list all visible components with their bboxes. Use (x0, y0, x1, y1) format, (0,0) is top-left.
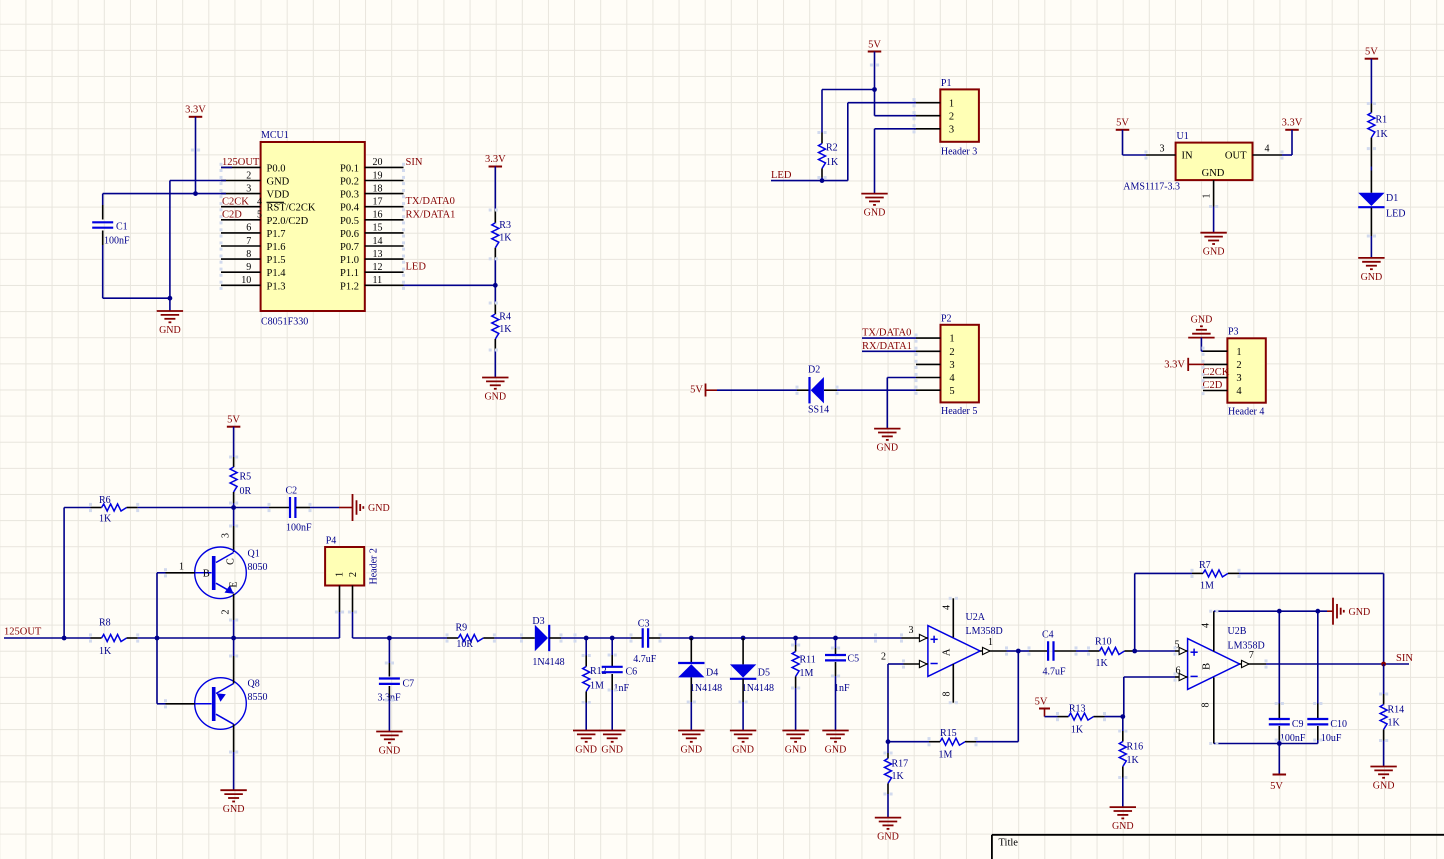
svg-text:1M: 1M (800, 668, 814, 679)
svg-text:5: 5 (949, 386, 954, 397)
svg-text:B: B (203, 569, 210, 580)
svg-text:E: E (229, 581, 240, 587)
svg-text:1K: 1K (826, 157, 839, 168)
svg-text:RX/DATA1: RX/DATA1 (862, 341, 912, 352)
svg-text:5V: 5V (1365, 47, 1378, 58)
svg-text:12: 12 (373, 262, 383, 273)
svg-text:C8051F330: C8051F330 (261, 317, 308, 328)
svg-text:C10: C10 (1330, 719, 1347, 730)
svg-text:R13: R13 (1069, 704, 1086, 715)
svg-text:1N4148: 1N4148 (690, 683, 722, 694)
svg-text:4: 4 (1201, 623, 1212, 628)
svg-text:P0.6: P0.6 (340, 229, 359, 240)
svg-text:8: 8 (942, 692, 953, 697)
svg-text:SIN: SIN (1396, 653, 1413, 664)
svg-text:1K: 1K (1127, 755, 1140, 766)
svg-text:2: 2 (1236, 360, 1241, 371)
svg-text:P1.0: P1.0 (340, 255, 359, 266)
svg-text:2: 2 (246, 170, 251, 181)
svg-text:R16: R16 (1127, 742, 1144, 753)
svg-text:R1: R1 (1376, 115, 1388, 126)
svg-text:1K: 1K (892, 771, 905, 782)
svg-text:1: 1 (988, 637, 993, 648)
svg-text:IN: IN (1182, 151, 1193, 162)
svg-text:4: 4 (257, 197, 262, 208)
svg-text:Header 4: Header 4 (1228, 407, 1264, 418)
svg-text:1: 1 (949, 334, 954, 345)
svg-text:P1.5: P1.5 (267, 255, 286, 266)
svg-text:1K: 1K (499, 233, 512, 244)
svg-text:1N4148: 1N4148 (532, 657, 564, 668)
svg-text:125OUT: 125OUT (222, 157, 260, 168)
svg-text:5V: 5V (868, 40, 881, 51)
svg-text:1K: 1K (99, 514, 112, 525)
svg-text:100nF: 100nF (1280, 733, 1306, 744)
svg-text:GND: GND (1349, 607, 1371, 618)
svg-text:GND: GND (1373, 781, 1395, 792)
svg-text:U1: U1 (1177, 131, 1189, 142)
svg-text:LM358D: LM358D (1228, 641, 1265, 652)
svg-text:100nF: 100nF (286, 523, 312, 534)
svg-text:0R: 0R (240, 486, 252, 497)
svg-text:3: 3 (949, 360, 954, 371)
svg-text:B: B (1202, 663, 1213, 670)
svg-text:GND: GND (864, 208, 886, 219)
svg-text:R4: R4 (499, 312, 511, 323)
svg-text:GND: GND (368, 503, 390, 514)
svg-text:R15: R15 (940, 728, 957, 739)
svg-text:2: 2 (221, 610, 232, 615)
svg-text:8: 8 (1201, 703, 1212, 708)
svg-text:D2: D2 (808, 365, 820, 376)
svg-text:GND: GND (825, 745, 847, 756)
svg-text:4: 4 (1265, 144, 1270, 155)
svg-text:R7: R7 (1199, 560, 1211, 571)
svg-text:125OUT: 125OUT (4, 627, 42, 638)
svg-text:R6: R6 (99, 495, 111, 506)
svg-text:GND: GND (223, 804, 245, 815)
svg-text:1: 1 (949, 98, 954, 109)
svg-text:3: 3 (909, 625, 914, 636)
svg-text:1nF: 1nF (834, 683, 850, 694)
svg-text:D5: D5 (758, 668, 770, 679)
svg-text:GND: GND (785, 745, 807, 756)
svg-text:Q1: Q1 (248, 549, 260, 560)
svg-text:P0.5: P0.5 (340, 216, 359, 227)
svg-text:1N4148: 1N4148 (742, 683, 774, 694)
svg-text:Header 5: Header 5 (941, 406, 977, 417)
svg-text:D3: D3 (532, 616, 544, 627)
svg-text:P2.0/C2D: P2.0/C2D (267, 216, 309, 227)
svg-text:1: 1 (1202, 194, 1213, 199)
svg-text:Title: Title (999, 838, 1019, 849)
svg-text:4.7uF: 4.7uF (1043, 667, 1067, 678)
svg-text:P2: P2 (941, 314, 952, 325)
svg-text:15: 15 (373, 223, 383, 234)
svg-text:A: A (942, 648, 953, 656)
svg-text:R3: R3 (499, 220, 511, 231)
svg-text:3.3nF: 3.3nF (378, 693, 402, 704)
svg-text:R17: R17 (892, 759, 909, 770)
svg-text:5V: 5V (1116, 118, 1129, 129)
svg-text:RX/DATA1: RX/DATA1 (406, 209, 456, 220)
svg-text:P1.7: P1.7 (267, 229, 286, 240)
svg-text:SIN: SIN (406, 157, 423, 168)
svg-text:C5: C5 (848, 654, 860, 665)
svg-text:C4: C4 (1042, 630, 1054, 641)
svg-text:8050: 8050 (248, 562, 268, 573)
svg-text:3.3V: 3.3V (1282, 118, 1303, 129)
svg-text:P3: P3 (1228, 327, 1239, 338)
svg-text:7: 7 (1249, 650, 1254, 661)
svg-text:1K: 1K (1071, 725, 1084, 736)
svg-text:TX/DATA0: TX/DATA0 (406, 196, 455, 207)
svg-text:3: 3 (221, 533, 232, 538)
svg-text:17: 17 (373, 197, 383, 208)
svg-text:R2: R2 (826, 143, 838, 154)
svg-text:6: 6 (246, 223, 251, 234)
svg-text:C: C (226, 558, 237, 565)
svg-text:1K: 1K (1376, 129, 1389, 140)
svg-text:SS14: SS14 (808, 405, 829, 416)
svg-text:U2A: U2A (966, 612, 986, 623)
svg-text:P0.3: P0.3 (340, 190, 359, 201)
svg-text:Header 2: Header 2 (369, 548, 380, 584)
svg-text:D1: D1 (1386, 193, 1398, 204)
svg-text:3.3V: 3.3V (185, 105, 206, 116)
svg-text:P0.2: P0.2 (340, 177, 359, 188)
svg-text:R8: R8 (99, 618, 111, 629)
svg-text:3: 3 (949, 124, 954, 135)
svg-text:GND: GND (601, 745, 623, 756)
svg-text:TX/DATA0: TX/DATA0 (862, 328, 911, 339)
svg-text:C7: C7 (403, 679, 415, 690)
svg-text:4: 4 (1236, 386, 1242, 397)
svg-text:1M: 1M (590, 681, 604, 692)
svg-text:P0.1: P0.1 (340, 163, 359, 174)
svg-text:C6: C6 (626, 667, 638, 678)
svg-text:10: 10 (241, 275, 251, 286)
svg-text:5V: 5V (227, 415, 240, 426)
svg-text:P1.1: P1.1 (340, 268, 359, 279)
svg-text:3.3V: 3.3V (485, 154, 506, 165)
svg-text:4: 4 (942, 605, 953, 610)
svg-text:2: 2 (949, 347, 954, 358)
svg-text:C2CK: C2CK (1203, 367, 1230, 378)
svg-text:GND: GND (732, 745, 754, 756)
svg-text:100nF: 100nF (104, 236, 130, 247)
svg-text:14: 14 (373, 236, 383, 247)
svg-text:LED: LED (406, 262, 427, 273)
svg-text:GND: GND (1191, 315, 1213, 326)
svg-text:C2D: C2D (222, 210, 242, 221)
svg-text:R14: R14 (1388, 705, 1405, 716)
svg-text:GND: GND (379, 746, 401, 757)
svg-text:1K: 1K (499, 324, 512, 335)
svg-text:GND: GND (267, 177, 290, 188)
svg-text:8550: 8550 (248, 692, 268, 703)
svg-text:5: 5 (257, 210, 262, 221)
svg-text:3.3V: 3.3V (1164, 360, 1185, 371)
svg-text:2: 2 (348, 572, 359, 577)
svg-text:GND: GND (877, 832, 899, 843)
svg-text:U2B: U2B (1228, 626, 1247, 637)
svg-text:Q8: Q8 (248, 679, 260, 690)
svg-text:5V: 5V (1035, 697, 1048, 708)
svg-text:4.7uF: 4.7uF (633, 654, 657, 665)
svg-text:R11: R11 (800, 655, 816, 666)
svg-text:VDD: VDD (267, 190, 290, 201)
svg-text:GND: GND (1112, 821, 1134, 832)
svg-text:R9: R9 (456, 623, 468, 634)
svg-text:20: 20 (373, 157, 383, 168)
svg-text:1: 1 (1236, 347, 1241, 358)
svg-text:1M: 1M (939, 750, 953, 761)
svg-text:GND: GND (876, 443, 898, 454)
svg-text:P1.2: P1.2 (340, 281, 359, 292)
svg-text:LM358D: LM358D (966, 626, 1003, 637)
svg-text:18: 18 (373, 183, 383, 194)
svg-text:MCU1: MCU1 (261, 130, 289, 141)
svg-text:GND: GND (1361, 272, 1383, 283)
svg-text:7: 7 (246, 236, 251, 247)
svg-text:1K: 1K (1388, 718, 1401, 729)
svg-text:OUT: OUT (1225, 151, 1247, 162)
svg-text:P1.4: P1.4 (267, 268, 287, 279)
svg-text:Header 3: Header 3 (941, 147, 977, 158)
svg-text:P1.3: P1.3 (267, 281, 286, 292)
svg-text:5V: 5V (1270, 781, 1283, 792)
svg-text:LED: LED (771, 170, 792, 181)
svg-text:3: 3 (246, 183, 251, 194)
svg-text:19: 19 (373, 170, 383, 181)
svg-text:C2: C2 (286, 486, 298, 497)
svg-text:3: 3 (1160, 144, 1165, 155)
svg-text:1: 1 (179, 562, 184, 573)
svg-text:C1: C1 (116, 222, 128, 233)
svg-text:11: 11 (373, 275, 383, 286)
svg-text:GND: GND (680, 745, 702, 756)
svg-text:R10: R10 (1095, 637, 1112, 648)
svg-text:AMS1117-3.3: AMS1117-3.3 (1123, 182, 1180, 193)
svg-text:LED: LED (1386, 209, 1405, 220)
svg-text:P4: P4 (326, 536, 337, 547)
svg-text:D4: D4 (706, 668, 718, 679)
svg-text:GND: GND (575, 745, 597, 756)
svg-text:10uF: 10uF (1321, 733, 1342, 744)
svg-text:13: 13 (373, 249, 383, 260)
svg-text:5V: 5V (690, 385, 703, 396)
svg-text:16: 16 (373, 210, 383, 221)
svg-text:P1.6: P1.6 (267, 242, 286, 253)
svg-text:P0.0: P0.0 (267, 163, 286, 174)
svg-text:R5: R5 (240, 472, 252, 483)
svg-text:4: 4 (949, 373, 955, 384)
svg-text:C2D: C2D (1203, 380, 1223, 391)
svg-text:1: 1 (335, 572, 346, 577)
svg-text:3: 3 (1236, 373, 1241, 384)
svg-text:C3: C3 (638, 619, 650, 630)
svg-text:1M: 1M (1200, 581, 1214, 592)
svg-text:2: 2 (949, 111, 954, 122)
svg-text:GND: GND (159, 325, 181, 336)
svg-text:C2CK: C2CK (222, 197, 249, 208)
svg-text:GND: GND (1202, 168, 1225, 179)
svg-text:2: 2 (881, 652, 886, 663)
svg-text:P0.7: P0.7 (340, 242, 359, 253)
svg-text:GND: GND (484, 392, 506, 403)
svg-text:P0.4: P0.4 (340, 203, 360, 214)
svg-text:P1: P1 (941, 78, 952, 89)
svg-text:9: 9 (246, 262, 251, 273)
svg-text:1K: 1K (99, 646, 112, 657)
svg-text:RST/C2CK: RST/C2CK (267, 203, 316, 214)
svg-text:10R: 10R (456, 639, 473, 650)
svg-text:8: 8 (246, 249, 251, 260)
svg-text:C9: C9 (1292, 719, 1304, 730)
svg-text:GND: GND (1203, 247, 1225, 258)
svg-text:1K: 1K (1096, 658, 1109, 669)
